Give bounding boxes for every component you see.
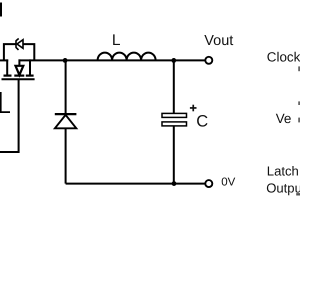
terminal Vout <box>205 57 212 64</box>
svg-text:Latch: Latch <box>267 164 299 179</box>
diode D2 (freewheeling) <box>55 60 77 183</box>
wire top rail (switch node to Vout) <box>19 59 205 61</box>
diode D1 (Q1 body diode) <box>16 39 23 50</box>
label + (capacitor polarity) <box>190 105 197 112</box>
cropped waveform mark (right of Output) <box>296 193 300 195</box>
node: diode junction <box>63 58 68 63</box>
wire body-diode loop <box>4 44 34 61</box>
wire gate drive <box>0 79 19 152</box>
wire bottom rail <box>66 183 205 185</box>
wire Vin rail (left segment) <box>0 59 8 61</box>
node: capacitor bottom junction <box>172 181 177 186</box>
capacitor C1 <box>162 60 187 183</box>
svg-text:Clock: Clock <box>267 50 300 65</box>
svg-text:C: C <box>196 113 208 131</box>
cropped waveform mark (right of Clock) <box>298 66 300 71</box>
svg-text:0V: 0V <box>221 176 235 188</box>
svg-text:L: L <box>112 32 121 49</box>
inductor L1 <box>98 53 156 61</box>
svg-text:Vout: Vout <box>204 33 233 49</box>
label L fragment (cropped at left edge) <box>0 92 10 113</box>
node: capacitor top junction <box>171 58 176 63</box>
transistor Q1 (power MOSFET) <box>2 59 35 79</box>
svg-text:Output: Output <box>266 181 300 196</box>
terminal 0V <box>205 180 212 187</box>
cropped fragment top-left <box>0 3 2 17</box>
svg-text:Ve: Ve <box>276 111 292 126</box>
cropped waveform mark (right edge, above Ve) <box>298 101 300 105</box>
cropped waveform mark (right of Ve) <box>298 118 300 123</box>
